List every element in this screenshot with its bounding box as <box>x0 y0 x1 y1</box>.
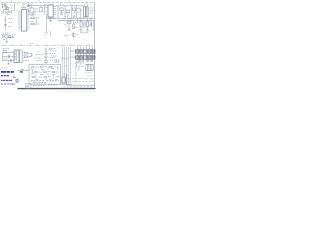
connector X1 cluster lower-left of top half <box>2 34 14 40</box>
wire top feed line <box>28 5 48 7</box>
wire J1 left feeds <box>71 51 76 57</box>
label U1 text above <box>21 7 26 9</box>
ground below U2 <box>49 17 52 22</box>
inductor L1 row above box <box>55 59 58 63</box>
wire title block divider <box>67 74 95 85</box>
frame right border <box>94 3 96 89</box>
label divider text mark <box>30 43 34 45</box>
frame bottom border (dark) <box>18 88 96 90</box>
node dots mid-left <box>26 60 29 62</box>
wire node top-left to IC <box>11 4 18 11</box>
label text near bus top <box>49 49 58 57</box>
wire U1 top <box>23 4 33 10</box>
capacitor C9 small above U1 right <box>27 4 30 7</box>
node marks right column under RN1 <box>77 63 92 76</box>
transistor Q1 cluster top-left <box>2 3 13 14</box>
regulator U3 small block bottom-middle-right <box>60 77 65 83</box>
wire faint dotted line below frame <box>58 91 95 93</box>
label blue text row 2 superscript <box>13 76 15 78</box>
label Q1 text marks <box>2 5 13 12</box>
wire bus vertical right single <box>75 62 77 84</box>
wire right-mid bus horizontal <box>46 17 94 22</box>
label chain text marks <box>60 4 81 12</box>
label K2 text <box>35 9 38 11</box>
diode D2 bottom-left <box>11 59 13 61</box>
label blue text row 2 <box>1 75 9 77</box>
label RN1 text <box>79 65 84 67</box>
label node text top-middle <box>44 3 47 5</box>
frame left border (partial top) <box>0 3 2 17</box>
op-amp U1 (tall IC) <box>19 10 30 32</box>
wire left column mid <box>4 16 7 31</box>
label K1 text right <box>90 8 95 13</box>
wire section divider dash-dot <box>2 44 94 46</box>
resistor R2 row right of U1 <box>30 11 40 13</box>
resistor R9 hatch marks right-mid <box>84 22 91 27</box>
components inside box B1 <box>31 66 60 80</box>
label top reference text marks <box>17 3 88 5</box>
wire T1 left feeds <box>3 53 15 61</box>
capacitor C5 chain <box>65 6 70 18</box>
logo stamp bottom-left <box>26 83 31 88</box>
wire J1 stubs above and below <box>76 47 92 69</box>
resistor R8 right-mid <box>73 20 75 28</box>
resistor R3 row right of U1 <box>30 16 39 19</box>
resistor R7 right-mid <box>67 22 71 30</box>
label T1 text <box>3 49 9 59</box>
label text above box left <box>35 58 43 61</box>
capacitor C4 right-mid <box>87 18 94 31</box>
label bottom small text center <box>33 84 58 87</box>
label right-mid extra text <box>65 25 92 36</box>
wire into box left <box>18 69 30 70</box>
fuse F1 bottom-left <box>3 50 6 53</box>
ground below X1 <box>5 38 8 43</box>
capacitor C2 top-middle <box>28 6 45 15</box>
label top edge tick marks <box>10 0 70 2</box>
label blue title text row 1 tail <box>20 71 23 73</box>
capacitor C1 row right of U1 <box>30 22 39 25</box>
label blue mark small <box>16 80 18 82</box>
label title block text rows <box>63 79 94 87</box>
capacitor C8 chain above box <box>45 48 48 65</box>
wire vertical right x76 <box>76 5 78 18</box>
label C8 text <box>44 49 56 60</box>
label faint marks above blue text <box>1 67 7 69</box>
diode D3 chain <box>72 6 76 18</box>
capacitor C6 bottom-left <box>9 55 10 58</box>
label U2 text <box>48 17 57 19</box>
wire vertical right x80 <box>80 8 82 18</box>
label left column text <box>9 19 13 27</box>
label X1 text above <box>3 33 16 35</box>
label blue title text row 1 (bold) <box>1 71 14 73</box>
resistor network RN1 hatched <box>86 64 94 70</box>
diode D1 chain <box>58 6 63 18</box>
ground right-mid row <box>68 30 90 32</box>
wire arrow into chain <box>35 52 45 55</box>
label blue-gray text row 4 <box>1 83 15 85</box>
relay K2 top-middle <box>29 6 34 15</box>
label net text right-mid <box>65 17 90 33</box>
wire bus verticals center-right <box>61 47 73 85</box>
wire top-right feed <box>56 5 84 7</box>
module box B1 (big sub-circuit box) <box>29 64 61 84</box>
wire long vertical x46 <box>37 14 47 33</box>
label blue text row 3 <box>1 79 12 81</box>
op-amp U2 (upper middle IC) <box>46 5 57 17</box>
frame top border <box>1 2 95 4</box>
label text row inside box bottom <box>31 81 59 83</box>
connector J1 lower row (dark block) <box>76 56 96 59</box>
connector J1 upper row (dark block) <box>76 50 96 53</box>
capacitor C3 right-mid <box>80 18 82 30</box>
resistor R10 mid-left bottom <box>25 53 34 58</box>
junction dots on bus <box>62 58 71 80</box>
transformer T1 bottom-left <box>14 50 25 63</box>
ground bottom-left <box>7 61 10 65</box>
node sparse mid-row marks <box>44 31 78 38</box>
relay K1 top-right <box>84 5 89 17</box>
